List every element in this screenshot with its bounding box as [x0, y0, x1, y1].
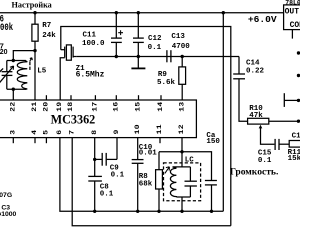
pin 9 — [114, 129, 121, 134]
label C16 fragment — [292, 133, 306, 141]
label VT1 fragment — [0, 192, 12, 199]
label C11 value — [82, 31, 105, 48]
crystal Z1 — [61, 49, 65, 51]
wire pin12 drop — [181, 138, 183, 167]
svg-text:150: 150 — [206, 138, 220, 146]
wire tank bottom — [7, 88, 26, 90]
inductor L6 in LC — [170, 167, 176, 197]
svg-text:5: 5 — [43, 130, 50, 135]
resistor R11 — [289, 141, 301, 148]
node C12 top junction — [137, 11, 140, 14]
R10 wiper arrow — [259, 125, 263, 129]
label Z1 value — [76, 65, 105, 80]
pin 11 — [159, 138, 161, 144]
node C11 bottom junction — [115, 55, 118, 58]
wire oscillator top rail — [61, 27, 231, 226]
node Ca bottom junction — [210, 210, 213, 213]
resistor R7 — [34, 13, 36, 25]
svg-text:R7: R7 — [42, 22, 51, 30]
svg-text:15: 15 — [135, 101, 142, 111]
capacitor C8 — [94, 159, 96, 176]
node LC bottom junction — [180, 210, 183, 213]
label C12 value — [148, 35, 162, 52]
svg-text:12: 12 — [179, 124, 186, 134]
svg-text:3: 3 — [10, 130, 17, 135]
capacitor C15 — [274, 139, 276, 150]
wire pin7 to oscillator — [72, 138, 231, 226]
svg-text:C12: C12 — [148, 35, 162, 43]
label R10 value — [249, 105, 263, 120]
node pin12 LC junction — [180, 150, 183, 153]
svg-text:11: 11 — [157, 124, 164, 134]
capacitor C17 plate right edge — [283, 93, 285, 107]
label R7 value — [42, 22, 56, 40]
svg-text:C11: C11 — [83, 31, 97, 39]
wire LC tank bottom lead — [181, 197, 183, 211]
capacitor C13 — [166, 50, 168, 62]
wire COM stub — [291, 30, 293, 39]
svg-text:100.0: 100.0 — [82, 40, 105, 48]
svg-text:0.1: 0.1 — [258, 157, 272, 165]
svg-text:Громкость.: Громкость. — [230, 166, 279, 176]
LC adjust arrow — [165, 167, 170, 174]
capacitor C12 — [137, 13, 139, 38]
capacitor C9 — [95, 158, 102, 160]
pin 5 — [45, 138, 47, 144]
label C13 value — [171, 33, 190, 51]
node R10 right end — [297, 120, 300, 123]
label R11 value fragment — [288, 149, 302, 163]
pin 7 — [69, 130, 76, 135]
wire Vcc vertical drop — [222, 13, 224, 212]
wire R7 to tank — [13, 51, 35, 61]
wire LC tank bottom — [176, 196, 190, 198]
label L5 — [37, 67, 47, 75]
svg-text:L5: L5 — [37, 67, 47, 75]
svg-text:0.1: 0.1 — [100, 190, 114, 198]
svg-text:18: 18 — [68, 101, 75, 111]
svg-text:24k: 24k — [42, 32, 56, 40]
svg-text:C16: C16 — [292, 133, 300, 141]
label R8 value — [139, 173, 153, 189]
node R7 top junction — [33, 11, 36, 14]
svg-text:5.6k: 5.6k — [157, 79, 176, 87]
resistor R8 — [158, 152, 160, 170]
svg-text:LC: LC — [185, 157, 195, 165]
svg-text:0.1: 0.1 — [148, 44, 162, 52]
svg-text:68k: 68k — [139, 181, 153, 189]
node tank top junction — [12, 59, 15, 62]
svg-text:100k: 100k — [0, 22, 13, 34]
svg-text:7: 7 — [69, 130, 76, 135]
wire pin21 riser — [34, 51, 36, 100]
label C15 value — [258, 149, 272, 165]
svg-text:COM: COM — [290, 21, 300, 30]
C7 variable arrow — [0, 66, 14, 85]
svg-text:OUT: OUT — [285, 7, 300, 16]
label C8 value — [100, 184, 114, 199]
svg-text:107G: 107G — [0, 192, 12, 199]
wire bypass net y56 — [76, 56, 239, 58]
node right edge B — [297, 74, 300, 77]
svg-text:78L0: 78L0 — [285, 0, 300, 7]
node right edge A — [297, 51, 300, 54]
L5 core dashes — [29, 62, 31, 66]
node C13 right junction — [181, 55, 184, 58]
voltage regulator U2 78L06 — [284, 5, 302, 30]
pin 15 — [138, 95, 140, 100]
svg-text:6.5Mhz: 6.5Mhz — [76, 70, 105, 79]
resistor R6 label fragment — [0, 14, 13, 34]
svg-text:R9: R9 — [158, 71, 168, 79]
wire crystal to pin19 — [60, 58, 64, 100]
pin 10 — [135, 124, 142, 134]
node tank bottom junction — [12, 88, 15, 91]
label C3 fragment — [0, 204, 17, 217]
pin 19 — [57, 101, 64, 111]
svg-text:10: 10 — [135, 124, 142, 134]
label MC3362 — [51, 112, 96, 126]
capacitor Ca — [205, 180, 217, 182]
svg-text:15k: 15k — [288, 155, 300, 163]
node right edge C — [297, 99, 300, 102]
C7 arrow fragment at edge — [0, 68, 3, 72]
pin 16 — [115, 95, 117, 100]
pin 14 — [160, 95, 162, 100]
pin 22 — [10, 101, 17, 111]
pin 21 — [32, 101, 39, 111]
label C10 value — [139, 144, 158, 158]
svg-text:16: 16 — [113, 101, 120, 111]
L5 adjust arrow — [30, 58, 33, 62]
svg-text:0.22: 0.22 — [246, 67, 265, 75]
pin 3 — [12, 138, 14, 144]
label Громкость — [230, 166, 279, 176]
label R9 value — [157, 71, 176, 87]
svg-text:47k: 47k — [249, 112, 263, 120]
pin 17 — [94, 95, 96, 100]
svg-text:6: 6 — [57, 130, 64, 135]
capacitor C11 electrolytic — [115, 13, 117, 38]
node pin8 C9 junction — [93, 158, 96, 161]
label LC — [185, 157, 195, 165]
svg-text:+6.0V: +6.0V — [248, 14, 277, 25]
pin 8 — [92, 130, 99, 135]
capacitor C7 variable — [6, 61, 8, 72]
svg-text:C13: C13 — [171, 33, 185, 41]
C11 plus sign — [118, 30, 123, 35]
svg-text:19: 19 — [57, 101, 64, 111]
wire pin6 Vcc — [60, 138, 223, 212]
pin 13 — [179, 101, 186, 111]
svg-text:22: 22 — [10, 101, 17, 111]
pin 12 — [179, 124, 186, 134]
label C9 value — [110, 165, 125, 180]
ground under C12 — [137, 57, 139, 68]
capacitor C10 — [137, 138, 139, 160]
label Ca value — [206, 132, 220, 146]
label COM pin — [290, 21, 305, 30]
potentiometer R10 — [248, 118, 269, 124]
label 78L06 — [285, 0, 301, 7]
label C14 value — [246, 60, 265, 76]
capacitor C14 — [238, 57, 240, 74]
svg-text:21: 21 — [32, 101, 39, 111]
LC tank dashed box — [164, 163, 201, 201]
capacitor in LC — [189, 167, 191, 181]
pin 4 — [34, 138, 36, 144]
label Настройка — [12, 0, 52, 9]
pin 6 — [57, 130, 64, 135]
wire pin9 drop — [116, 138, 118, 160]
op-amp U1 MC3362 box — [0, 100, 196, 138]
wire pin22 riser — [12, 89, 14, 100]
svg-text:13: 13 — [179, 101, 186, 111]
wire +6V rail top — [0, 12, 284, 14]
node C8 bottom junction — [93, 210, 96, 213]
wire tank top — [7, 60, 26, 62]
svg-text:Настройка: Настройка — [12, 0, 52, 9]
svg-text:20: 20 — [43, 101, 50, 111]
svg-text:5-20: 5-20 — [0, 49, 8, 56]
svg-text:0.01: 0.01 — [139, 150, 158, 158]
pin 18 — [70, 95, 72, 100]
svg-text:MC3362: MC3362 — [51, 112, 96, 126]
svg-text:4: 4 — [32, 129, 39, 135]
node C11 top junction — [115, 11, 118, 14]
wire LC tank top — [173, 166, 191, 168]
node R8 bottom junction — [157, 210, 160, 213]
svg-text:0.1: 0.1 — [111, 171, 125, 179]
pin 20 — [45, 95, 47, 100]
node Vcc rail junction — [222, 11, 225, 14]
label OUT pin — [285, 7, 300, 16]
svg-text:1000: 1000 — [1, 211, 16, 218]
svg-text:14: 14 — [158, 101, 165, 112]
svg-text:9: 9 — [114, 129, 121, 134]
node C10 bottom junction — [136, 210, 139, 213]
inductor L5 — [17, 61, 27, 90]
svg-text:8: 8 — [92, 130, 99, 135]
wire pin8 drop — [94, 138, 96, 160]
resistor R9 — [181, 57, 183, 67]
capacitor C7 label fragment — [0, 44, 8, 56]
svg-text:4700: 4700 — [172, 43, 191, 51]
svg-text:17: 17 — [92, 101, 99, 111]
wire LC node horizontal — [159, 152, 212, 180]
node C12 bottom junction — [137, 55, 140, 58]
label +6.0V — [248, 14, 277, 25]
svg-text:C15: C15 — [258, 149, 272, 157]
node R7 bottom junction — [33, 49, 36, 52]
